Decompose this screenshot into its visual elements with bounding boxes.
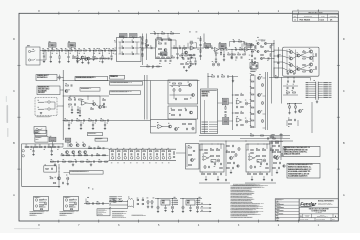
column resistor R85 [251,107,254,108]
cluster capacitor C73 [103,103,105,105]
bottom wire resistor R52 [147,66,150,67]
bus capacitor C36 [71,119,73,121]
capacitor C2 [47,49,49,51]
driver shunt cap C32 [71,106,73,109]
leader resistor R157 [276,141,279,142]
approval column box [275,199,299,221]
output transistor Q15 [309,50,312,53]
svg-text:7815: 7815 [162,201,165,203]
below box wire vertical [309,77,311,80]
right cluster resistor R54 [180,55,183,56]
pedal 2 header label [65,196,69,199]
note under channel blocks [233,183,255,186]
top loop wire [150,33,180,35]
splitter wires [151,126,157,128]
loop resistor R47 [169,39,172,40]
effects box cap [51,168,53,170]
volume pot VR1 [49,43,57,47]
top loop capacitor C35 [154,32,156,34]
bias box labels [250,69,256,70]
right transistor Q27 [258,77,261,80]
small part B [62,182,64,184]
row3 resistor R142 [105,161,108,162]
channel A outer ecap E [238,148,240,151]
right column resistor R153 [276,149,279,150]
channel A outer transistor H [237,165,239,167]
bias box cap [255,64,257,66]
driver resistor R41 [69,99,72,100]
zone ticks left and right [17,64,20,66]
bus capacitor C40 [95,119,97,121]
approval row 6 [275,214,299,216]
channel B below resistor row [248,173,251,174]
resistor R7 [70,50,73,51]
U9B cluster resistor 1 [236,113,239,114]
tone resistor R106 [53,146,56,147]
row3 resistor R133 [51,161,54,162]
mid vertical wire [231,75,233,130]
channel A resistor 4 [217,155,220,156]
bridge rectifier CR23 [142,203,144,205]
reverb pot VR4 [219,43,226,48]
plus mark [88,187,89,188]
channel B outer resistor C [273,146,276,147]
bias cluster wires [287,103,302,105]
bridge rectifier CR21 [137,203,139,205]
bottom wire resistor R53 [157,66,160,67]
bus capacitor C38 [83,119,85,121]
bus capacitor C47 [70,84,72,86]
bias cluster ecap CE5 [294,106,296,109]
mid op-amp U9A [237,100,241,104]
svg-text:C: C [343,90,345,93]
extra shunt resistor R31 [190,58,192,61]
tone resistor R105 [48,146,51,147]
gain pot above U1 [120,34,128,38]
reverb transducer L2 [38,109,44,110]
U2 internal cap [164,42,166,44]
feedback loop rectangle [156,40,176,48]
row1 parts [89,148,92,149]
column resistor R81 [251,81,254,82]
row3 capacitor C92 [75,161,77,163]
pre wire [22,143,64,145]
effects box resistor [46,168,49,169]
right lower resistor R59 [191,64,194,65]
power transistor Q13 [297,54,300,57]
row2 resistor R74 [243,54,246,55]
pedal 2 jack 2 [65,205,67,207]
channel B inner resistor 6 [251,153,254,154]
pedal 2 resistor [70,209,73,210]
resistor R10 [84,50,87,51]
svg-text:D: D [343,38,345,41]
reverb ground symbol [40,111,42,114]
left column wire A [142,34,144,66]
wire second input [36,59,46,61]
top wire blob B [280,134,283,135]
channel B inner resistor 7 [266,168,269,169]
U1 label [119,35,124,38]
left vert cap C52 [199,55,201,57]
input jack box J1 [26,47,40,65]
driver resistor RC [270,46,271,48]
driver transistor Q8 [260,57,262,59]
left vert resistor R66 [200,50,201,53]
chain resistor R92 on rail [275,77,278,78]
channel A right parts row2 [228,162,231,163]
driver row y45 resistor [251,45,254,46]
U1 pin stubs [115,41,117,43]
output box feed wires [274,49,283,51]
aux chain wire [84,203,109,205]
revision block [293,11,339,21]
row3 capacitor C89 [57,161,59,163]
svg-text:POWER SUPPLY 022036: POWER SUPPLY 022036 [132,215,147,217]
resistor R28 [240,49,243,50]
box stub wire 1 [57,77,63,79]
limiter bottom wire [140,66,162,68]
pot column resistor Rb [225,114,226,116]
to reverb tank strip label [80,88,100,92]
bias diode CR7 [251,55,253,57]
channel B resistor 3 [257,155,260,156]
EQ box resistor R140 [189,147,192,148]
effects box [44,166,57,172]
driver row y51 resistor [251,51,254,52]
row3 resistor R136 [69,161,72,162]
connector drop wire [311,102,313,133]
svg-text:EQ SW 02021: EQ SW 02021 [96,138,103,140]
tone resistor R100 [26,146,29,147]
extra shunt cap C21 [195,58,197,61]
rail vertical wire right [280,77,282,103]
power transistor Q9 [289,50,292,53]
driver transistor Q4 [257,42,259,44]
preamp board strip label [110,75,125,79]
channel A outer capacitor D [232,145,234,147]
TB1 terminal rows [202,122,209,123]
zone ticks top and bottom [58,12,60,15]
resistor R13 [99,50,102,51]
U9B output ecap [245,120,247,123]
bus branch wire [63,95,109,97]
power transistor Q14 [297,67,300,70]
phase splitter box [151,120,197,134]
filter ecap C110 [147,201,149,204]
column resistor R84 [251,101,254,102]
channel B ground symbols [251,176,253,179]
bridge rectifier CR20 [137,199,139,201]
mid parts row wire A [283,85,298,87]
driver capacitor C31 [74,103,76,105]
drop resistor R67 [215,50,217,53]
bias chain resistor R63 [212,76,215,77]
driver transistor Q5 [264,42,266,44]
vertical wire at x150 [150,81,152,120]
channel A op-amp U10 [203,156,208,161]
power amp output box [283,47,319,76]
below chain capacitor C23 [107,57,109,59]
lower bias capacitor C72 [294,119,296,121]
J3 pin 6 wires [309,92,316,94]
channel B right ecap [281,154,283,157]
U2 internal cap 2 [164,54,166,56]
channel A ground symbols [205,176,207,179]
row2 resistor R126 [67,155,70,156]
svg-text:SEE NOTE 3: SEE NOTE 3 [60,215,68,217]
box stub wire 3 [57,105,63,107]
diode CR2 [132,41,134,43]
channel B junction dots [258,144,259,145]
channel A inner resistor 6 [205,153,208,154]
IC U2 limiter box [156,39,172,59]
shunt resistor R27 [223,50,225,55]
regulator plus feed wire [155,198,177,200]
emitter resistor REf [316,67,317,70]
ground at Q39 [58,185,60,188]
aux capacitor C105 [92,202,94,204]
channel B resistor 1 [257,149,260,150]
row3 resistor R138 [81,161,84,162]
mid row resistor R91 [293,92,296,93]
resistor R18 [146,44,149,45]
right column resistor R155 [276,142,279,143]
channel A below resistor row [202,173,205,174]
channel B outer capacitor D [278,145,280,147]
mid parts row wire B [283,94,298,96]
bias shunt [232,77,234,81]
AC color code list [109,196,117,197]
diode CR6 [132,53,134,55]
power transformer T1 secondary [128,206,133,207]
driver resistor RA [261,46,264,47]
row2 resistor R132 [103,155,106,156]
tone capacitor C77 [57,146,59,148]
channel A trim pot dark [211,160,216,163]
right vertical wire pair [265,72,267,130]
vertical wire pair B [146,75,148,120]
right lower capacitor C50 [188,66,190,68]
svg-text:SEE NOTE 3: SEE NOTE 3 [30,215,38,217]
resistor R12 [94,50,97,51]
pot column resistor Ra [225,107,226,110]
mid row capacitor C60 [286,87,288,89]
diode CR5 [122,53,124,55]
second top wire [240,138,290,140]
row2 resistor R72 [233,54,236,55]
scan artifact smudges [7,105,9,123]
J3 pin 1 wires [309,82,316,84]
svg-text:POWER SUPPLY BD 022036: POWER SUPPLY BD 022036 [112,211,128,213]
EQ out wires [176,152,186,154]
tone chain ground drops [33,147,35,151]
below chain wire [72,58,110,60]
diode CR4 [132,47,134,49]
shunt capacitor C5 to ground [50,51,52,57]
svg-text:P/N 016113: P/N 016113 [38,92,45,94]
reverb tank label [37,115,50,118]
lowright ecap CE7 [250,66,252,69]
svg-text:C: C [13,90,15,93]
inter-channel top wire [199,135,290,137]
EQ ladder end resistor [173,152,174,155]
footswitch note box [36,75,57,81]
approval row 2 [275,201,299,203]
left margin wire [21,144,23,186]
power amp assembly strip label [110,91,141,95]
regulator minus feed wire [180,198,202,200]
mid row capacitor C61 [292,87,294,89]
EQ box resistor R141 [189,154,192,155]
relay resistor R61 [179,109,182,110]
driver transistor Q6 [257,50,259,52]
pedal 1 caption text [30,210,45,213]
svg-text:LIM: LIM [163,54,165,56]
opto ecap C41 [179,89,181,92]
channel B capacitor 1 [260,163,262,165]
channel B bottom wire [245,182,276,184]
aux resistor R161 [97,203,100,204]
reverb driver wires [87,102,93,105]
emitter resistor REe [316,54,317,57]
presence dark blob [246,44,252,47]
shunt resistor R11 [77,51,79,56]
junction dots column [59,168,60,169]
row2 resistor R73 [238,54,241,55]
channel A inner ecap 2 [217,159,219,162]
AC mains wire black [109,201,128,203]
channel A junction dots [212,144,213,145]
column resistor R82 [251,88,254,89]
limiter row resistor R49 [162,57,165,58]
driver capacitor CGa [267,57,269,59]
cluster resistor R97 [103,100,106,101]
output transistor Q18 [309,69,312,72]
channel B vertical wire [271,141,273,176]
channel B inner ecap [250,166,252,169]
limiter row capacitor C38 [164,60,166,62]
right output ecap CE1 [261,84,263,87]
output transistor Q17 [309,63,312,66]
EQ ladder top rail [109,148,177,150]
opto coupler box U6 [168,80,198,104]
transformer core lines [127,200,129,208]
footswitch jack box J5 [34,127,46,134]
reverb driver op-amp U5 [82,101,87,106]
U9A cluster resistor 1 [236,95,239,96]
title block outline [299,199,338,221]
buffer transistor row 2a Q35 [66,151,69,154]
svg-text:REG: REG [162,203,165,205]
channel B resistor 4 [263,155,266,156]
bus resistor R56 [101,120,104,121]
limiter row resistor R51x [172,57,175,58]
bias diode wires [251,50,253,56]
channel switching strip label [110,82,143,86]
left col resistor R39 [142,54,143,57]
EQ cell 6 [140,149,142,160]
U2 internal resistor [159,43,162,44]
relay resistor R60 [172,109,175,110]
left vert capacitor C51 [199,44,201,46]
J3 pin 2 wires [309,84,316,86]
channel A enclosure box [200,144,224,172]
channel A vertical wire [225,141,227,176]
resistor R21 [174,47,177,48]
row3 resistor R135 [63,161,66,162]
treble pot VR2 [68,43,76,47]
size cell divider [302,214,304,218]
op-amp U4 [244,47,248,51]
J3 pin 5 wires [309,90,316,92]
column resistor R86 [251,114,254,115]
EQ cell 10 [166,149,168,160]
regulator minus output label [199,196,201,199]
bias cluster ecap CE4 [288,106,290,109]
mid op-amp U9B [237,118,241,122]
pot column capacitor Ca [224,111,226,113]
row2 capacitor C62 [235,56,237,58]
resistor R6 [65,50,68,51]
channel B capacitor 2 [266,163,268,165]
channel A capacitor 1 [214,163,216,165]
driver out cap C34 [103,106,105,108]
emitter resistor REd [303,71,306,72]
capacitor C8 [74,49,76,51]
U2 label [157,36,162,39]
right lower resistor R58 [186,64,189,65]
bright pot above U1 [130,34,138,38]
above wire capacitor C24 [287,72,289,74]
capacitor C16 [179,47,181,49]
row1 wire [63,147,109,149]
svg-text:TONE BD 02020: TONE BD 02020 [88,133,97,135]
channel B inner resistor 5 [251,150,254,151]
left col resistor R36 [142,37,143,40]
limiter row capacitor C37 [159,60,161,62]
net stub wire [85,199,87,204]
splitter resistor RS1 [183,123,186,124]
bias ecap CE6 [67,177,69,180]
top wire resistor R150 [251,135,254,136]
resistor R25 [206,47,209,48]
row3 resistor R141 [99,161,102,162]
row2 resistor R71 [228,54,231,55]
below wire capacitor C26 [287,80,289,82]
top wire capacitor C97 [267,137,269,139]
tone chain wire 1 [24,146,63,148]
ecap ground wire [67,180,69,183]
EQ cell 1 [109,149,111,160]
row2 capacitor C59 [230,56,232,58]
volume pot VR6 [65,138,71,142]
splitter op-amp U7 [158,124,162,128]
driver transistor Q39 [57,177,60,180]
channel B top rail wire [245,140,293,142]
lower bias resistor R96 [289,123,292,124]
driver shunt cap C33 [77,106,79,109]
channel B enclosure box [246,144,270,172]
below chain resistor R34 [95,58,98,59]
right column resistor R154 [270,142,273,143]
master pot VR3 [204,44,211,48]
relay box K1 [168,106,198,119]
AC mains wire green [109,208,128,210]
volume board note box A [35,130,47,136]
rate pot VR9 [223,118,229,125]
opto transistor Q21 [189,84,192,87]
